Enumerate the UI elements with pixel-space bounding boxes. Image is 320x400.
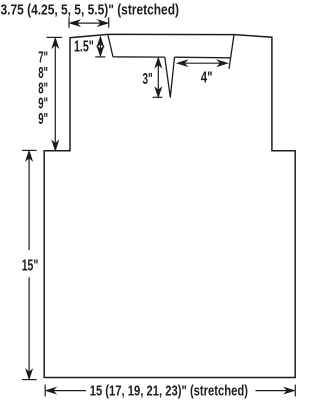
dimension arrow neck to shoulder [178,61,227,66]
neckband right inner edge / 4in tick [229,35,234,69]
dimension arrow 1.5in neckband depth [95,37,105,57]
svg-text:4": 4" [201,69,213,86]
garment body outline [44,34,295,377]
svg-text:3": 3" [143,71,153,88]
dimension arrow slit depth [153,58,163,97]
dimension arrow bottom width [45,385,295,397]
svg-text:15": 15" [22,258,39,275]
neckband left inner edge [108,35,113,57]
svg-text:3.75 (4.25, 5, 5, 5.5)" (stret: 3.75 (4.25, 5, 5, 5.5)" (stretched) [1,1,180,18]
neck slit V [165,57,175,98]
svg-text:15 (17, 19, 21, 23)" (stretche: 15 (17, 19, 21, 23)" (stretched) [90,383,248,399]
dimension arrow shoulder width [69,17,109,28]
dimension arrow armhole depth [47,37,62,149]
dimension arrow side length [22,150,37,379]
svg-text:1.5": 1.5" [74,38,94,55]
neckline left segment [113,56,165,58]
neckline right segment [175,56,231,59]
svg-text:9": 9" [38,111,48,128]
